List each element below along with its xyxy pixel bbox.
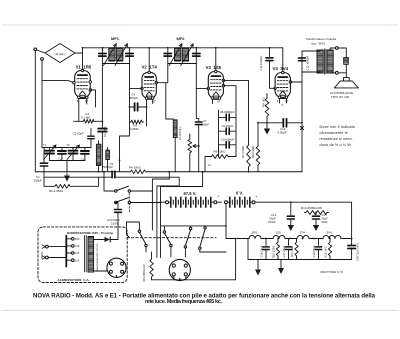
resistor R11	[295, 241, 298, 257]
diode-pentode tube V3 1S5	[207, 70, 225, 99]
wire C13 right	[287, 122, 303, 124]
switch S1a lever	[117, 186, 129, 190]
node S1a bus	[103, 171, 105, 173]
tap terminal 145	[72, 245, 75, 248]
node MF2 right top	[195, 47, 197, 49]
wire R9 top stub	[266, 94, 268, 98]
wire A2 down to tuning line	[41, 60, 43, 147]
capacitor C3	[98, 129, 107, 132]
svg-text:RIDUTTORE 6:7,5: RIDUTTORE 6:7,5	[321, 270, 344, 274]
wire 6V right stub	[250, 201, 252, 203]
trimmer T2 riser	[72, 148, 74, 150]
node MF2 left top	[167, 47, 169, 49]
svg-text:50VL: 50VL	[322, 220, 329, 224]
trimmer T2 down	[72, 155, 74, 161]
output terminal bottom	[335, 71, 338, 74]
wire chain seg4	[341, 238, 352, 240]
capacitor C10 (electrolytic)	[115, 210, 122, 213]
ground arrow filament mid	[278, 260, 284, 275]
wire grid branch to V1	[42, 81, 74, 83]
switch bank dashed line	[127, 237, 216, 239]
svg-text:C2-50pF: C2-50pF	[73, 131, 84, 135]
svg-text:ALIMENTATORE C.A.: ALIMENTATORE C.A.	[58, 278, 90, 282]
svg-text:R12-1KΩ: R12-1KΩ	[324, 246, 328, 257]
wire diode out	[110, 239, 118, 241]
trimmer arrow MF2 secondary	[181, 44, 194, 66]
wire V4 pin stub a	[279, 99, 281, 104]
svg-text:dono da ½ o ¼ W: dono da ½ o ¼ W	[320, 143, 352, 147]
wire C8 right	[229, 116, 236, 118]
wire R7 bottom	[248, 168, 250, 172]
ground arrow filament left	[255, 260, 261, 276]
wire R15 bottom	[151, 278, 153, 280]
wire bus to switch link 1	[152, 172, 169, 230]
svg-text:C19-25µF: C19-25µF	[312, 245, 316, 257]
plug pin 1	[109, 262, 112, 265]
node top rail / V1	[82, 47, 84, 49]
wire C2 lower	[90, 139, 92, 147]
changeover switch pole 1 bottom contact	[145, 244, 147, 246]
wire ladder left rail	[218, 110, 220, 157]
autotransformer primary bar	[65, 236, 67, 267]
page top rule	[2, 24, 398, 26]
wire V2 grid to MF1 secondary	[130, 64, 143, 89]
wire V4 plate right	[290, 81, 302, 83]
wire socket pin 4 down	[185, 276, 187, 280]
socket pin 2	[184, 264, 187, 267]
svg-text:TRASFORMATORE TIPO B3: TRASFORMATORE TIPO B3	[96, 243, 99, 272]
switch S1b contact left	[115, 201, 117, 203]
wire C16 lower	[265, 250, 267, 260]
node L2/bus link	[119, 159, 121, 161]
output transformer core	[324, 49, 325, 74]
node C14 tap	[290, 201, 292, 203]
svg-text:0,1 MΩ: 0,1 MΩ	[81, 115, 91, 119]
svg-text:C11-1000pF: C11-1000pF	[259, 55, 263, 70]
resistor R6	[210, 155, 230, 159]
resistor R12	[328, 241, 331, 257]
node chain f	[329, 238, 331, 240]
wire 6V plus rail	[255, 202, 352, 245]
wire R12 bottom	[329, 257, 331, 260]
mains terminal 1	[46, 245, 49, 248]
svg-text:150pF: 150pF	[201, 123, 209, 127]
svg-text:C16-25µF: C16-25µF	[259, 245, 263, 257]
coil L1 antenna	[96, 144, 101, 165]
wire tuning bottom to bus	[66, 161, 68, 172]
wire V4 pin stub b	[286, 99, 288, 104]
resistor R2	[54, 184, 72, 188]
node bus junction d	[248, 171, 250, 173]
wire pole4 bottom	[200, 249, 226, 252]
wire voice coil down	[345, 64, 347, 77]
wire mains 1	[48, 246, 66, 248]
svg-text:C17-25µF: C17-25µF	[282, 245, 286, 257]
svg-text:R6-10KΩ: R6-10KΩ	[214, 150, 227, 154]
svg-text:R8-0,5MΩ: R8-0,5MΩ	[251, 146, 255, 158]
wire top rail (plates to MF transformers)	[83, 47, 283, 49]
wire tuning top line	[42, 147, 91, 149]
trimmer T1 riser	[49, 148, 51, 150]
svg-text:150VL: 150VL	[268, 220, 277, 224]
wire V3 diode right lower	[223, 85, 236, 87]
wire 67V right stub	[212, 201, 214, 203]
wire C8 left	[219, 116, 227, 118]
wire C7 leg lower	[198, 125, 200, 171]
coil MF2 primary winding	[175, 48, 181, 61]
wire S1a left	[104, 172, 115, 191]
svg-text:14: 14	[208, 163, 211, 167]
wire A1 to coil L1 diamond	[37, 50, 45, 53]
wire right leg lower	[351, 249, 353, 260]
changeover switch pole 3 bottom contact	[184, 246, 186, 248]
wire 6V left stub	[228, 201, 230, 203]
tap terminal 110	[72, 259, 75, 262]
wire MF2 left leg down	[166, 64, 168, 83]
svg-text:RETE: RETE	[40, 252, 44, 259]
svg-text:R2-1,5MΩ: R2-1,5MΩ	[49, 189, 64, 193]
tap terminal 125	[72, 252, 75, 255]
svg-text:3V4: 3V4	[327, 231, 333, 235]
wire R5 bottom to bus	[189, 154, 191, 172]
wire MF1 right leg	[129, 48, 131, 64]
node C15 tap	[315, 212, 317, 214]
trimmer arrow T2	[67, 145, 80, 160]
node chain a	[265, 238, 267, 240]
svg-text:1T4: 1T4	[300, 231, 306, 235]
wire V1 pin to R1	[78, 99, 80, 122]
wire primary top	[302, 50, 320, 52]
changeover switch pole 4 lever	[200, 229, 205, 247]
svg-text:R4-10KΩ: R4-10KΩ	[129, 166, 142, 170]
socket pin 4	[184, 273, 187, 276]
antenna terminal A2	[41, 58, 44, 61]
wire S1b left to C10	[115, 203, 118, 209]
wire chain seg2	[285, 238, 297, 240]
capacitor C5	[112, 171, 115, 178]
wire V2 plate to top rail	[148, 48, 150, 71]
wire V4 grid riser	[282, 48, 284, 72]
wire primary bottom	[302, 71, 320, 73]
capacitor C16	[263, 247, 269, 250]
wire second bus b	[115, 177, 179, 186]
wire 67V left stub	[169, 201, 171, 203]
wire bus to switch link 2	[161, 172, 203, 202]
wire grid loop return to bus	[120, 122, 130, 172]
wire R9 to C13 line	[266, 118, 268, 123]
coil output transformer secondary	[327, 50, 333, 73]
wire C4 left	[130, 106, 135, 108]
svg-text:2,5MΩ: 2,5MΩ	[130, 127, 139, 131]
wire into bank left corner	[127, 229, 130, 238]
wire secondary top	[330, 48, 335, 50]
wire R10 ends	[277, 239, 279, 242]
svg-text:RADDRIZZATORE 150V - 75 mAmp: RADDRIZZATORE 150V - 75 mAmp	[67, 231, 113, 235]
resistor R15	[150, 258, 153, 278]
svg-text:V3 1S5: V3 1S5	[206, 65, 222, 70]
node top rail / C11	[269, 47, 271, 49]
resistor R9	[265, 97, 269, 118]
svg-text:−: −	[227, 195, 229, 199]
node chain d	[302, 238, 304, 240]
wire pole1 bottom	[145, 247, 147, 252]
wire V1 plate to top rail	[82, 48, 84, 70]
wire right vertical plate line	[301, 51, 303, 172]
svg-text:C18-75µF 50VL: C18-75µF 50VL	[356, 242, 360, 261]
wire center vertical to socket	[160, 202, 162, 257]
wire C16 upper	[265, 239, 267, 246]
node bus junction a	[98, 171, 100, 173]
page bottom rule	[2, 310, 398, 312]
svg-text:S7: S7	[217, 100, 221, 104]
coil output transformer primary	[317, 50, 323, 73]
capacitor C18	[348, 246, 355, 249]
resistor R13	[305, 211, 329, 215]
changeover switch pole 2 bottom contact	[170, 244, 172, 246]
wire pole1 top	[127, 222, 140, 230]
variable capacitor T1	[45, 151, 54, 154]
wire MF2 right leg down to V3 grid	[195, 64, 197, 89]
svg-text:R7-2,5MΩ: R7-2,5MΩ	[241, 146, 245, 158]
svg-text:C12-1000pF: C12-1000pF	[306, 55, 310, 70]
speaker	[334, 78, 358, 88]
svg-text:125: 125	[75, 251, 80, 255]
capacitor C7	[195, 122, 202, 125]
changeover switch pole 4 bottom contact	[199, 247, 201, 249]
capacitor C4	[135, 103, 138, 111]
svg-text:L4-OSCILL.: L4-OSCILL.	[178, 126, 182, 140]
pentagrid tube V1 1R5	[73, 69, 92, 99]
capacitor C2	[88, 136, 94, 139]
capacitor MF2 primary trimmer	[164, 54, 171, 57]
resistor R7	[247, 144, 251, 168]
svg-text:145: 145	[75, 244, 80, 248]
wire L4 bottom to bus	[174, 138, 176, 172]
changeover switch pole 3 lever	[185, 230, 190, 246]
wire grid loop right	[146, 107, 148, 126]
wire to voice coil	[338, 48, 346, 57]
battery 67,5V cells	[171, 197, 211, 207]
wire C4 right	[138, 106, 147, 108]
wire pole3 top	[190, 226, 192, 228]
wire C7 leg upper	[198, 119, 200, 122]
ground arrow C14	[288, 219, 294, 231]
changeover switch pole 3 top contact	[189, 227, 191, 229]
battery 6V cells	[230, 197, 250, 207]
coil MF1 primary winding	[109, 48, 115, 61]
trimmer arrow MF2 primary	[169, 44, 182, 66]
resistor R8	[256, 145, 260, 166]
wire V2 filament pin down	[146, 99, 148, 107]
wire MF1 left leg	[101, 48, 103, 64]
svg-text:resistenze si inten.: resistenze si inten.	[320, 137, 354, 141]
node chain c	[289, 238, 291, 240]
wire C3 to bus	[101, 132, 103, 172]
trimmer arrow MF1 secondary	[115, 44, 128, 66]
capacitor C9	[226, 128, 229, 134]
wire C17 upper	[288, 239, 290, 246]
wire V3 pin down	[212, 99, 214, 103]
svg-text:V1 1R5: V1 1R5	[76, 64, 92, 69]
capacitor C15	[313, 216, 320, 219]
wire C19 lower	[318, 250, 320, 260]
wire mains 2	[48, 257, 66, 259]
filament 1R5	[249, 236, 261, 239]
variable capacitor CV1	[58, 151, 66, 154]
ground arrow C15	[313, 219, 319, 231]
wire socket bottom return	[152, 239, 236, 280]
wire V2 screen right	[156, 82, 166, 84]
wire V3 grid branch down	[196, 88, 198, 118]
node C13/plate line	[301, 122, 303, 124]
node bus junction b	[168, 171, 170, 173]
svg-text:V4 3V4: V4 3V4	[273, 66, 289, 71]
variable CV1 riser	[61, 148, 63, 151]
capacitor C19	[315, 247, 321, 250]
wire C11 upper	[269, 48, 271, 57]
plug key notch	[116, 276, 118, 278]
filament 1T4	[297, 236, 309, 239]
wire C9 right	[229, 130, 236, 132]
svg-text:0,05µF: 0,05µF	[278, 131, 287, 135]
wire MF2 right leg	[195, 48, 197, 64]
wire ladder right rail	[235, 86, 237, 157]
plug pin 2	[121, 262, 124, 265]
node chain right end	[351, 238, 353, 240]
node chain b	[277, 238, 279, 240]
node top rail / V2	[148, 47, 150, 49]
changeover switch pole 4 top contact	[204, 227, 206, 229]
node C4 right	[146, 106, 148, 108]
wire L2 top	[107, 148, 109, 151]
mains plug outline	[107, 258, 126, 277]
wire R11 ends	[296, 239, 298, 242]
svg-text:Dove non è indicato: Dove non è indicato	[320, 125, 355, 129]
svg-text:C8-20000pF: C8-20000pF	[220, 110, 235, 114]
variable capacitor T2	[69, 151, 78, 154]
changeover switch pole 1 lever	[139, 232, 146, 244]
power tube V4 3V4	[274, 71, 292, 98]
svg-text:1S5: 1S5	[276, 231, 282, 235]
wire S1b right	[131, 202, 161, 204]
svg-text:250pF: 250pF	[34, 178, 42, 182]
svg-text:TIPO OC 100: TIPO OC 100	[331, 95, 350, 99]
wire R15 top	[151, 252, 153, 258]
wire 67V plus stub	[217, 201, 222, 203]
svg-text:R9-1KΩ: R9-1KΩ	[261, 97, 265, 107]
mains terminal 2	[46, 256, 49, 259]
svg-text:diversamente le: diversamente le	[320, 131, 348, 135]
trimmer T1 down	[49, 155, 51, 161]
wire MF2 bottom	[168, 63, 197, 65]
svg-text:R13-2500Ω-6W: R13-2500Ω-6W	[301, 206, 322, 210]
transformer core	[85, 236, 87, 273]
svg-text:MF1: MF1	[111, 36, 120, 41]
wire grid loop left	[129, 88, 131, 122]
wire C10 left	[219, 144, 227, 146]
capacitor C17	[285, 247, 291, 250]
filament 1S5	[273, 236, 285, 239]
node battery feed	[160, 201, 162, 203]
node chain e	[313, 238, 315, 240]
autotransformer secondary winding	[88, 237, 94, 273]
wire C14 upper	[290, 202, 292, 215]
node R9/C13	[266, 122, 268, 124]
wire diamond to V1 plate riser	[75, 52, 83, 54]
wire V3 plate to top rail	[215, 48, 217, 71]
pentode tube V2 1T4	[141, 71, 158, 99]
wire socket pin 3 down	[173, 276, 175, 280]
wire R6 left down to bus	[205, 157, 210, 172]
node MF1 left top	[102, 47, 104, 49]
node R1/C3	[102, 120, 104, 122]
wire MF1 bottom	[102, 63, 129, 65]
wire L1 bottom to bus	[98, 166, 100, 172]
trimmer arrow T1	[44, 145, 57, 160]
wire AVC line	[44, 185, 54, 187]
wire secondary bottom	[330, 72, 335, 74]
wire A1 down left edge to ground bus	[34, 51, 36, 172]
wire bottom terminal join	[338, 72, 346, 74]
tap terminal 160	[72, 238, 75, 241]
alimentatore dashed box	[38, 227, 127, 283]
wire 6V minus down	[226, 204, 248, 239]
wire pole feed top	[161, 225, 227, 227]
svg-text:R11-75Ω: R11-75Ω	[290, 246, 294, 257]
antenna terminal A1	[34, 48, 37, 51]
filament 3V4	[323, 236, 341, 239]
capacitor C11	[266, 58, 273, 61]
capacitor C13	[283, 119, 286, 127]
capacitor C10	[226, 142, 229, 148]
wire pole2 top	[163, 226, 165, 231]
socket key notch	[179, 279, 181, 281]
wire R5 top	[189, 134, 191, 138]
svg-text:R10-100Ω: R10-100Ω	[272, 246, 276, 258]
svg-text:160: 160	[75, 237, 80, 241]
wire R11 bottom	[296, 257, 298, 260]
wire C9 left	[219, 130, 227, 132]
node R8 top	[257, 122, 259, 124]
variable CV1 down	[61, 155, 63, 161]
switch S1b contact right	[128, 201, 130, 203]
wire C1 lower	[43, 166, 45, 186]
switch S1a contact right	[128, 190, 130, 192]
wire C13 left	[258, 122, 283, 124]
svg-text:67,5 V.: 67,5 V.	[184, 191, 197, 196]
node MF1 right top	[129, 47, 131, 49]
node return to filament wire	[235, 238, 237, 240]
coil MF2 secondary winding	[182, 48, 188, 61]
capacitor C1	[40, 163, 47, 166]
node top rail / V3	[215, 47, 217, 49]
capacitor C14	[287, 216, 294, 219]
wire V3 grid left	[196, 87, 208, 89]
antenna coil symbol (diamond) 20 sec	[45, 44, 75, 63]
plug pin 3	[109, 270, 112, 273]
svg-text:6 V.: 6 V.	[236, 190, 243, 195]
coil voice coil	[344, 57, 349, 64]
svg-text:1: 1	[277, 99, 279, 103]
svg-text:T2: T2	[66, 143, 70, 147]
tap wire 160	[66, 238, 71, 240]
resistor R3	[130, 120, 144, 124]
svg-text:110: 110	[75, 258, 80, 262]
resistor R4	[129, 170, 147, 174]
svg-text:+: +	[218, 193, 221, 198]
ground arrow below tuning	[64, 173, 70, 182]
socket pin 1	[172, 264, 175, 267]
